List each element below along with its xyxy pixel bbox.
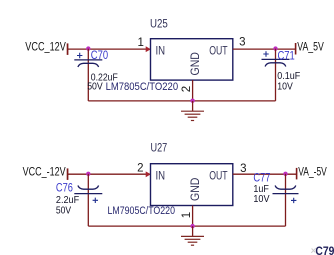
svg-text:U27: U27 (151, 140, 168, 154)
svg-text:VA_5V: VA_5V (297, 41, 324, 53)
svg-text:U25: U25 (150, 16, 168, 30)
svg-text:OUT: OUT (209, 44, 228, 58)
svg-text:10V: 10V (277, 80, 293, 92)
svg-text:2: 2 (137, 162, 143, 174)
svg-text:C79: C79 (315, 244, 334, 255)
svg-text:IN: IN (156, 44, 166, 58)
svg-text:3: 3 (239, 37, 245, 49)
svg-text:IN: IN (156, 169, 166, 183)
svg-text:GND: GND (188, 52, 202, 76)
svg-text:2: 2 (181, 86, 193, 92)
svg-text:10V: 10V (253, 193, 269, 205)
svg-text:50V: 50V (87, 81, 103, 93)
svg-text:C70: C70 (91, 50, 108, 62)
svg-text:50V: 50V (56, 205, 71, 217)
svg-text:1: 1 (137, 37, 143, 49)
svg-text:VCC_12V: VCC_12V (25, 41, 66, 53)
svg-text:C71: C71 (278, 51, 295, 63)
svg-text:VA_-5V: VA_-5V (298, 167, 327, 179)
svg-text:VCC_-12V: VCC_-12V (23, 167, 66, 179)
svg-text:GND: GND (188, 177, 202, 201)
svg-text:LM7905C/TO220: LM7905C/TO220 (108, 205, 176, 217)
svg-text:OUT: OUT (209, 169, 228, 183)
svg-text:1: 1 (181, 212, 193, 218)
svg-text:LM7805C/TO220: LM7805C/TO220 (106, 81, 179, 93)
svg-text:3: 3 (240, 163, 246, 175)
svg-text:C76: C76 (56, 182, 73, 194)
